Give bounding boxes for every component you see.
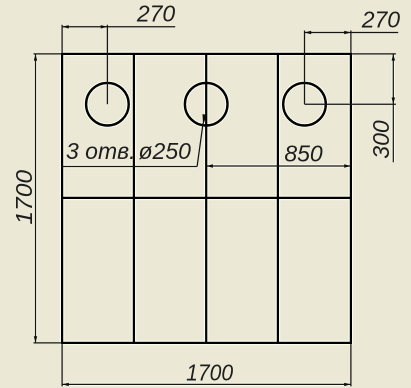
- arrow 1700 left bottom: [34, 336, 37, 343]
- svg-text:ø250: ø250: [139, 138, 192, 164]
- arrow 300 bottom: [392, 98, 395, 105]
- halo under hole circle 3: [283, 83, 326, 126]
- svg-text:1700: 1700: [186, 359, 234, 385]
- dim 1700 left bottom extension line: [34, 342, 62, 344]
- halo under hole circle 1: [86, 83, 129, 126]
- inner horizontal line at 850: [62, 197, 351, 199]
- dim 1700 left dimension line: [35, 54, 37, 343]
- dim 300 bottom extension line from hole 3 centre: [305, 103, 396, 105]
- halo under left dim line: [34, 54, 37, 343]
- arrow 1700 bottom right: [344, 383, 351, 386]
- arrow 270 TL left: [62, 25, 69, 28]
- dim 850 dimension line: [206, 165, 351, 167]
- dim 1700 left top extension line: [34, 53, 62, 55]
- dim 270 TR extension line at plate right edge: [350, 31, 352, 54]
- divider line 3: [277, 54, 279, 343]
- note underline for 3 otv o250: [63, 166, 197, 168]
- arrow 1700 bottom left: [62, 383, 69, 386]
- svg-text:3 отв.: 3 отв.: [66, 138, 136, 164]
- arrow 1700 left top: [34, 54, 37, 61]
- halo under note underline: [63, 165, 197, 168]
- dim 270 TL extension line left: [61, 25, 63, 53]
- halo under divider 1: [132, 54, 137, 343]
- hole circle 3: [283, 83, 326, 126]
- dim 270 TL extension line to hole 1 centre: [106, 25, 108, 104]
- halo under divider 2: [204, 54, 209, 343]
- hole circle 1: [86, 83, 129, 126]
- hole circle 2: [185, 83, 228, 126]
- dim 300 top extension line: [352, 53, 396, 55]
- halo under 300 dim line: [392, 54, 395, 162]
- dim 1700 bottom right extension line: [350, 344, 352, 386]
- dim 1700 bottom left extension line: [61, 344, 63, 386]
- arrow 300 top: [392, 54, 395, 61]
- halo under bottom dim line: [62, 383, 351, 386]
- divider line 1: [133, 54, 135, 343]
- dim 270 TL dimension line: [62, 26, 175, 28]
- dim 270 TR dimension line: [305, 32, 399, 34]
- svg-text:850: 850: [284, 140, 323, 166]
- svg-text:300: 300: [368, 120, 394, 159]
- svg-text:270: 270: [361, 7, 401, 33]
- arrow 270 TL right: [101, 25, 108, 28]
- dim 300 dimension line: [392, 54, 394, 162]
- halo under plate outline: [62, 54, 351, 343]
- dim 270 TR extension line to hole 3 centre: [304, 31, 306, 105]
- arrow 850 right: [344, 164, 351, 167]
- arrow 850 left: [206, 164, 213, 167]
- leader line to hole 2: [197, 123, 203, 167]
- halo under divider 3: [276, 54, 281, 343]
- halo under 850 dim line: [206, 164, 351, 167]
- svg-text:270: 270: [136, 1, 176, 27]
- halo under hole circle 2: [185, 83, 228, 126]
- leader arrow at hole 2 edge: [203, 114, 207, 125]
- divider line 2 (centre): [205, 54, 207, 343]
- arrow 270 TR right: [344, 31, 351, 34]
- dim 1700 bottom dimension line: [62, 383, 351, 385]
- arrow 270 TR left: [305, 31, 312, 34]
- svg-text:1700: 1700: [12, 169, 38, 224]
- halo under inner horizontal line: [62, 196, 351, 201]
- plate outline 1700x1700: [62, 54, 351, 343]
